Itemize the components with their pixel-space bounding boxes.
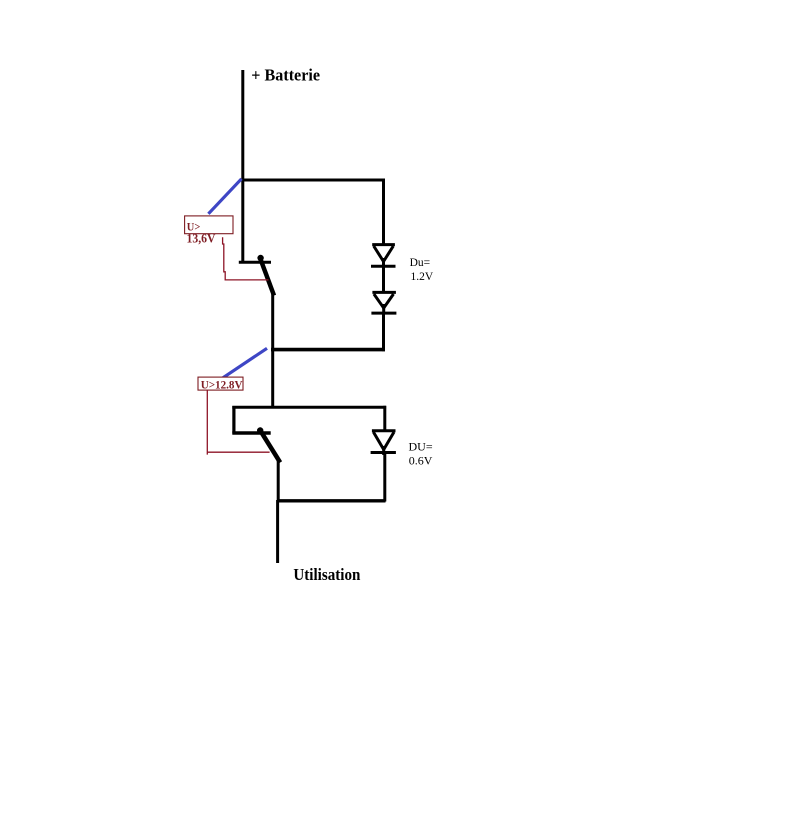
svg-text:DU=: DU= (409, 439, 433, 453)
diode D1 (371, 245, 396, 267)
blue annotation line 1 (208, 179, 241, 214)
red sense line 1 (223, 237, 269, 280)
wire: second rail (232, 406, 386, 409)
svg-text:U>12.8V: U>12.8V (201, 377, 243, 391)
svg-text:Utilisation: Utilisation (293, 565, 360, 584)
switch S2 (232, 427, 280, 462)
red sense line 2 (207, 390, 269, 455)
wire: between D1 and D2 (382, 266, 385, 293)
blue annotation line 2 (220, 348, 267, 380)
wire: right branch lower (383, 406, 386, 430)
label Du= 1.2V (410, 257, 434, 283)
svg-text:13,6V: 13,6V (187, 231, 216, 245)
svg-text:0.6V: 0.6V (409, 453, 433, 467)
wire: battery vertical (241, 70, 244, 263)
comparator box U>12.8V (198, 377, 243, 391)
diode D3 (371, 431, 396, 455)
wire: left drop to switch2 (232, 406, 235, 434)
wire: right branch upper (382, 179, 385, 246)
svg-text:Du=: Du= (410, 257, 431, 269)
wire: below D2 (382, 313, 385, 351)
wire: mid rail (271, 348, 385, 352)
wire: utilisation drop (276, 500, 279, 563)
wire: switch1 output vertical (271, 294, 274, 407)
wire: switch2 output vertical (277, 461, 280, 502)
wire: bottom rail (277, 499, 386, 502)
diode D2 (371, 292, 396, 314)
svg-text:+ Batterie: + Batterie (251, 66, 320, 85)
switch S1 (239, 255, 274, 296)
svg-text:1.2V: 1.2V (411, 271, 434, 283)
wire: top rail (241, 179, 385, 182)
wire: below D3 (383, 453, 386, 502)
comparator box U>13,6V (185, 216, 233, 234)
label DU= 0.6V (409, 439, 433, 467)
